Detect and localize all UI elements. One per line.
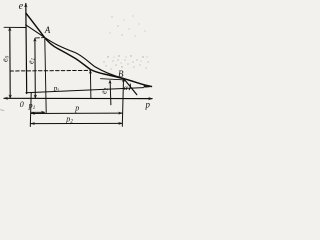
e0 top arrowhead xyxy=(8,27,11,31)
svg-text:B: B xyxy=(118,69,124,79)
p2 row left arrowhead xyxy=(30,122,35,125)
e1 dimension line xyxy=(34,39,36,98)
e2 level line from curve to B xyxy=(101,79,124,80)
speckle noise field top right xyxy=(103,16,148,70)
e-axis arrowhead xyxy=(24,3,27,7)
p-bar row left arrowhead xyxy=(31,112,36,115)
p2 dimension row xyxy=(31,122,122,124)
p-bar dimension row xyxy=(31,112,122,114)
p-bar row right arrowhead xyxy=(118,112,123,115)
svg-text:e: e xyxy=(19,1,24,12)
compression curve xyxy=(26,13,152,86)
svg-text:p: p xyxy=(74,104,79,113)
e0 bottom arrowhead xyxy=(9,95,12,99)
scan dirt left edge xyxy=(1,109,5,112)
long horizontal construction line from origin xyxy=(26,88,144,93)
p-axis right arrowhead xyxy=(148,97,153,100)
e-axis xyxy=(25,4,28,94)
angle alpha arc xyxy=(129,84,130,90)
e1 bottom arrowhead xyxy=(34,95,37,99)
e1 dashes from dimension line to A xyxy=(36,37,45,39)
B vertical extension line xyxy=(122,79,123,127)
intermediate top arrowhead xyxy=(89,70,92,74)
svg-text:p: p xyxy=(145,100,151,110)
e0 reference horizontal xyxy=(4,26,26,28)
e2 dimension line xyxy=(109,81,112,105)
dashed level line at intermediate pressure xyxy=(10,69,90,72)
e2 top arrowhead xyxy=(108,80,111,84)
secant line through A and B xyxy=(26,25,124,79)
e1 top arrowhead xyxy=(33,38,36,42)
e0 label rotated xyxy=(1,55,11,62)
p1 vertical from A to dimension row xyxy=(45,39,46,113)
axis extension below origin xyxy=(29,93,32,127)
B vertical top arrowhead xyxy=(122,78,125,82)
intermediate vertical at curve xyxy=(89,71,92,99)
svg-text:A: A xyxy=(44,25,51,35)
curve end blob xyxy=(144,84,153,87)
secant extension beyond B xyxy=(124,78,137,94)
p1 row right arrowhead xyxy=(41,111,46,114)
p-axis left arrowhead xyxy=(3,97,8,100)
p1 dimension row (merged with p-bar row) xyxy=(31,111,45,113)
svg-text:0: 0 xyxy=(20,100,24,109)
p2 row right arrowhead xyxy=(118,122,123,125)
p-axis xyxy=(4,97,152,99)
e0 dimension line xyxy=(9,28,11,97)
